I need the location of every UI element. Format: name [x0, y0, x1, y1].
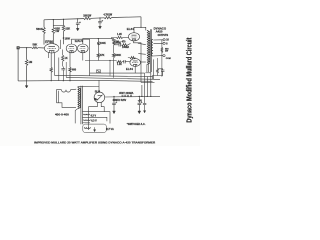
svg-text:+: +: [141, 100, 143, 104]
junction dot riser2: [150, 96, 151, 97]
tube V2b 12AU7: [78, 44, 89, 53]
wire rectifier heater drop: [98, 80, 100, 93]
tube V5 5U4 rectifier: [94, 92, 105, 103]
resistor R17 zobel: [157, 69, 159, 74]
transformer T2 HV secondary winding b: [79, 88, 80, 108]
junction dot R3 node: [63, 37, 65, 39]
wire V3 cathode: [134, 41, 142, 83]
wire switched B+ stub: [141, 81, 155, 83]
wire R12 top: [113, 38, 115, 41]
wire riser OPT centre: [150, 72, 152, 96]
wire rectifier filament left: [88, 102, 97, 106]
resistor R19 screen 1K: [62, 55, 64, 61]
transformer T1 primary winding column a: [147, 30, 148, 64]
svg-text:+: +: [115, 100, 117, 104]
wire B+ feed down to OPT centre tap: [140, 17, 142, 28]
capacitor C12 coupling lower: [123, 60, 125, 63]
wire R5 top: [26, 48, 28, 60]
svg-text:IMPROVED MULLARD 20 WATT AMPLI: IMPROVED MULLARD 20 WATT AMPLIFIER USING…: [34, 141, 156, 145]
wire C1 top: [62, 67, 64, 69]
wire grid stopper to V1 grid: [38, 47, 45, 49]
resistor R8 4.7K/1W: [104, 16, 112, 18]
junction dot bus C1: [63, 80, 64, 81]
wire tap 16: [153, 39, 163, 41]
svg-text:EL34: EL34: [126, 67, 133, 71]
wire V4 screen tap to OPT: [138, 53, 146, 56]
svg-text:47K: 47K: [100, 54, 105, 57]
wire R9 to bus: [69, 72, 71, 81]
transformer T2 heater winding 1: [83, 112, 110, 124]
capacitor C9 filter: [138, 96, 140, 103]
wire V1 pin stub: [48, 52, 50, 58]
transformer T1 core: [149, 29, 151, 72]
tube V3 EL34 upper: [128, 33, 139, 41]
wire zobel cap top: [158, 69, 163, 70]
junction dot rail R1: [53, 19, 54, 20]
junction dot filter cap2: [139, 96, 140, 97]
wire R13 bottom: [113, 58, 115, 78]
wire R1 bottom to V1: [43, 34, 45, 45]
junction dot rail at C4: [77, 18, 78, 19]
terminal 16 ohm: [163, 39, 165, 41]
wire rectifier filament right: [101, 102, 104, 112]
wire long vertical feed: [89, 39, 91, 76]
svg-text:EL34: EL34: [127, 27, 134, 31]
resistor R20 screen V3: [116, 36, 122, 38]
wire R2 bottom: [52, 34, 54, 44]
input terminal J1: [17, 46, 20, 49]
tube V1 EF86 pentode: [44, 44, 59, 53]
component F1 fuse on L1: [96, 70, 100, 73]
svg-text:56K: 56K: [33, 43, 38, 47]
svg-text:400-0-400: 400-0-400: [55, 112, 69, 116]
wire V4 plate to OPT: [141, 61, 146, 63]
transformer T2 primary winding in box: [84, 127, 90, 128]
junction dot input grid resistor: [26, 47, 27, 48]
rectifier internal diagonal: [97, 95, 103, 101]
wire V2a plate up and over: [72, 39, 90, 44]
wire tap 8: [153, 42, 163, 44]
svg-text:A420: A420: [156, 30, 163, 34]
wire C12 to V4 grid: [125, 61, 130, 63]
svg-text:117 VA: 117 VA: [106, 128, 114, 131]
wire R20 to V3: [123, 37, 129, 39]
capacitor C11 series on bus: [112, 38, 116, 40]
wire heater line L1: [90, 72, 145, 74]
wire grid node drop: [109, 61, 111, 76]
junction dot R10 top: [98, 38, 99, 39]
transformer T2 heater winding 2: [83, 117, 107, 121]
svg-text:4.7K/1W: 4.7K/1W: [104, 14, 113, 17]
capacitor C1 cathode bypass: [61, 68, 65, 70]
transformer T2 HV secondary winding a: [78, 87, 79, 108]
wire R3 bottom: [63, 31, 65, 44]
svg-text:100K: 100K: [100, 42, 106, 45]
resistor R9 680 cathode: [69, 67, 71, 72]
junction dot screen riser: [147, 96, 148, 97]
resistor R7 10K/1W: [84, 17, 92, 19]
junction dot filter cap1: [113, 96, 114, 97]
tube V2a 12AU7: [66, 44, 77, 53]
ground below C5: [99, 25, 101, 27]
wire top B+ rail left segment: [44, 19, 84, 20]
svg-text:.1M: .1M: [115, 42, 119, 44]
wire zobel top: [157, 58, 159, 69]
capacitor C5 rail bypass electrolytic: [99, 18, 101, 21]
wire V2 cathode down: [69, 53, 71, 68]
wire primary to HV winding: [71, 88, 77, 91]
ground below C9: [138, 105, 140, 112]
wire screen resistor bottom: [62, 61, 64, 66]
wire R2 top: [52, 20, 54, 28]
capacitor C4 rail bypass electrolytic: [77, 19, 79, 23]
svg-text:5U4: 5U4: [95, 89, 101, 93]
resistor R2 82K/1W: [52, 27, 55, 34]
wire T2 bottom link: [57, 103, 77, 108]
rectifier plate arrow: [95, 98, 98, 100]
svg-text:Dynaco Modified Mullard Circui: Dynaco Modified Mullard Circuit: [187, 37, 194, 123]
wire rail right segment: [112, 16, 142, 19]
svg-text:1K: 1K: [65, 57, 68, 60]
svg-text:6.3 V: 6.3 V: [91, 120, 97, 122]
wire V1 leg 3: [58, 58, 60, 81]
resistor R11 47K: [97, 53, 99, 57]
wire R11 bottom: [97, 58, 99, 61]
wire screen row V3 left: [112, 38, 117, 39]
transformer T1 secondary winding: [151, 40, 153, 57]
wire V2b cathode: [82, 53, 84, 61]
svg-text:10K/1W: 10K/1W: [83, 16, 92, 18]
svg-text:+: +: [79, 20, 81, 24]
wire V3 plate to OPT top: [134, 27, 146, 32]
wire V1 screen stub right: [60, 40, 62, 49]
wire rail middle segment: [91, 17, 104, 20]
svg-text:560K: 560K: [115, 54, 121, 57]
svg-text:*SWITCHED A.C.: *SWITCHED A.C.: [127, 123, 146, 126]
wire V3 screen tap to OPT: [138, 43, 146, 45]
wire input down leg: [17, 49, 19, 81]
junction dot B+ plate node: [140, 27, 141, 28]
wire R5 bottom: [26, 66, 28, 81]
svg-text:1W: 1W: [55, 29, 59, 33]
svg-text:100K: 100K: [65, 38, 71, 40]
transformer T2 primary top coil: [62, 90, 71, 92]
capacitor C6 coupling upper: [114, 44, 119, 46]
resistor R12 100K: [113, 41, 115, 45]
svg-text:+: +: [101, 18, 103, 22]
svg-text:12AU7: 12AU7: [75, 39, 84, 43]
wire R3 top: [63, 19, 65, 25]
svg-text:450V 200MA: 450V 200MA: [119, 92, 134, 95]
svg-text:1.2K: 1.2K: [117, 34, 122, 36]
resistor R6 cathode bias V1: [50, 67, 52, 72]
wire lower bias bus: [85, 60, 117, 62]
terminal common: [163, 55, 165, 57]
capacitor C8 filter: [113, 97, 115, 103]
resistor R1 560K plate load: [43, 27, 46, 34]
wire input to grid stopper: [20, 47, 32, 49]
transformer T1 primary lower leads: [146, 64, 148, 72]
wire feedback line L2: [54, 75, 152, 76]
wire R15 to V4 grid: [122, 61, 124, 63]
resistor R3 22K screen feed: [62, 25, 65, 31]
svg-text:560K: 560K: [36, 27, 44, 31]
wire HV top to rectifier: [78, 86, 99, 88]
wire riser screen supply: [141, 85, 143, 96]
resistor R4 grid stopper: [32, 47, 38, 49]
ground below C10: [144, 105, 146, 111]
svg-text:100MA: 100MA: [122, 46, 130, 49]
cap section marks: [121, 95, 123, 97]
terminal 8 ohm: [163, 42, 165, 44]
wire splitter output top bus: [83, 39, 114, 44]
capacitor C10 switched branch: [143, 102, 146, 104]
svg-text:1W: 1W: [165, 51, 168, 53]
wire C1 to bus: [62, 70, 64, 81]
wire T2 primary left leg: [57, 90, 62, 103]
wire V4 cathode down: [134, 66, 136, 73]
wire R12 R13 link: [113, 45, 115, 54]
wire heater link: [83, 122, 90, 124]
junction dot rail at C5: [99, 17, 100, 18]
capacitor C7 zobel: [161, 69, 164, 71]
wire secondary bottom lead: [153, 59, 155, 79]
ground inside 117V box: [94, 127, 96, 129]
wire link R2 R3: [53, 24, 63, 26]
svg-text:OUTPUTS: OUTPUTS: [158, 35, 169, 37]
resistor R10 100K: [97, 42, 99, 46]
transformer T2 primary 117V box: [83, 124, 107, 132]
resistor R16 divider damping: [161, 47, 163, 52]
junction dot bus R9: [69, 80, 70, 81]
wire L1 down to switched branch: [144, 73, 146, 103]
wire T2 primary second leg: [58, 91, 60, 103]
resistor R15 grid stopper V4: [117, 61, 122, 63]
wire output terminal strip: [161, 40, 163, 77]
wire heater leg down: [87, 107, 89, 130]
resistor R21 screen V4: [130, 57, 136, 59]
svg-text:1M: 1M: [29, 60, 33, 64]
ground input stage: [26, 81, 28, 86]
junction dot bus left: [51, 80, 52, 81]
transformer T1 primary winding column b: [149, 32, 150, 64]
wire R1 top: [43, 20, 45, 28]
ground below C4: [77, 27, 79, 29]
wire R10 top: [97, 39, 99, 42]
wire HV bottom lead: [75, 109, 77, 124]
wire V1 cathode down: [50, 53, 52, 68]
wire R10 R11 link: [97, 45, 99, 53]
tube V4 EL34 lower: [130, 59, 141, 67]
ground below C8: [113, 105, 115, 112]
svg-text:1.2K: 1.2K: [117, 64, 122, 66]
junction dot riser1: [141, 96, 142, 97]
wire L3 left leg: [65, 62, 67, 77]
wire V1 leg 2: [53, 53, 55, 76]
wire R6 to bus: [50, 72, 52, 80]
svg-text:EF86: EF86: [45, 40, 53, 44]
wire tap common: [153, 55, 163, 57]
transformer T1 bottom tap mark: [145, 72, 150, 74]
svg-text:22K: 22K: [65, 26, 70, 30]
junction dot grid node: [109, 60, 110, 61]
wire zobel cap bottom: [158, 71, 163, 75]
svg-text:680: 680: [72, 69, 77, 72]
resistor R5 1M grid return: [25, 60, 28, 66]
wire zobel bottom join: [153, 73, 158, 79]
wire ground bus: [18, 79, 152, 82]
wire screen riser: [146, 77, 148, 97]
wire screen resistor top: [62, 50, 64, 56]
svg-text:COM: COM: [166, 58, 171, 60]
wire rectifier output B+: [105, 95, 160, 98]
resistor R13 560K: [113, 53, 115, 57]
junction dot rail R3: [63, 19, 64, 20]
wire R21 left stub: [128, 57, 130, 59]
transformer T2 core: [80, 86, 82, 124]
resistor R14 grid stopper V3: [121, 44, 127, 46]
wire heater line L3: [66, 77, 160, 79]
wire R14 to V3: [128, 44, 131, 45]
